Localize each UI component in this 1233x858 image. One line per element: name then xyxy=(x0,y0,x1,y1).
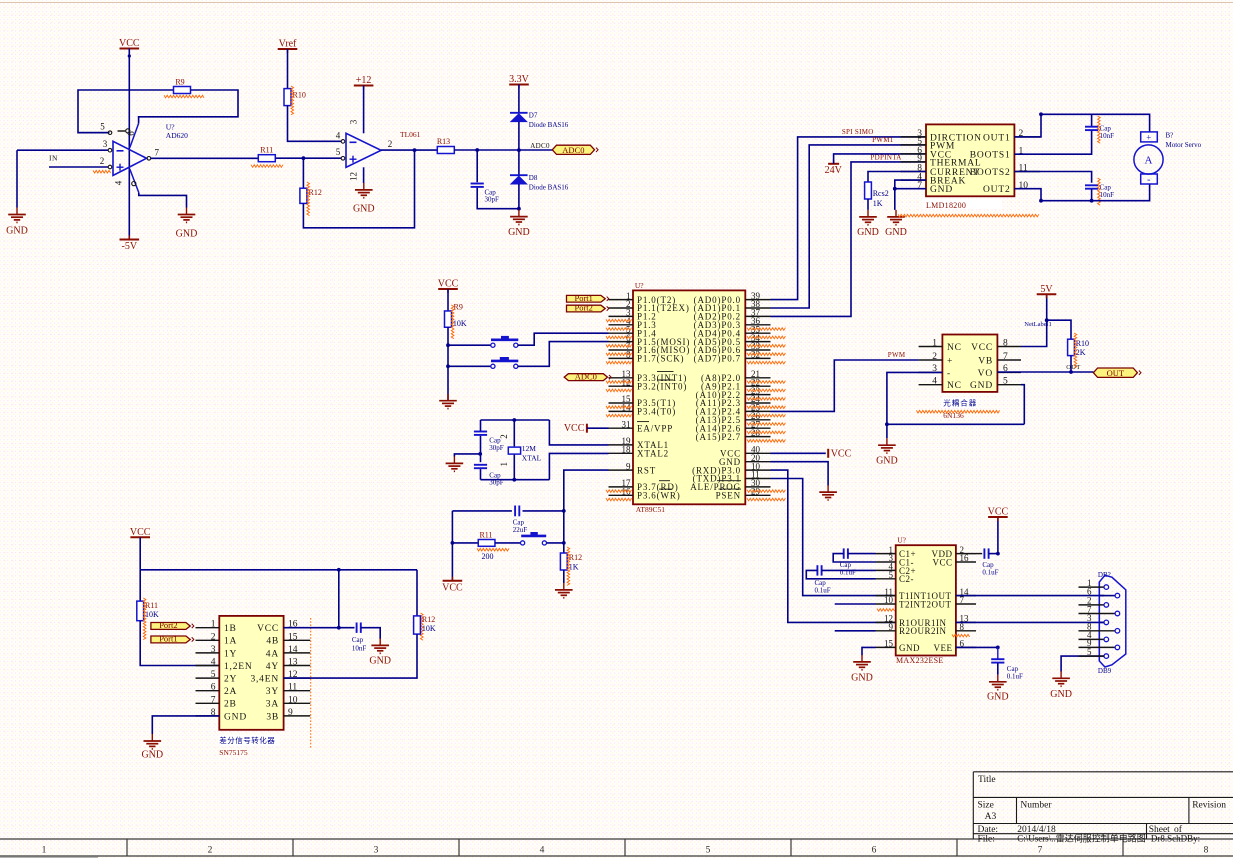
SN75175 pin 16 VCC xyxy=(284,627,311,629)
resistor R12 xyxy=(300,188,307,203)
power VCC (op-amp AD620 supply) xyxy=(120,48,140,50)
MCU overlines (active-low pins) xyxy=(657,371,674,373)
svg-text:10: 10 xyxy=(288,695,298,705)
svg-text:Title: Title xyxy=(978,775,996,785)
svg-text:3A: 3A xyxy=(266,700,279,710)
svg-text:LMD18200: LMD18200 xyxy=(926,201,966,210)
capacitor Cap 30pF (XTAL2 side) xyxy=(474,431,487,433)
wire clamp node xyxy=(477,149,552,151)
svg-text:2: 2 xyxy=(932,352,937,362)
LMD18200 pin 7 GND xyxy=(901,188,926,190)
svg-text:GND: GND xyxy=(970,381,993,391)
capacitor Cap 22uF xyxy=(452,510,512,512)
svg-text:8: 8 xyxy=(1204,845,1209,855)
svg-text:VCC: VCC xyxy=(932,557,952,567)
wire VCC to -5V vertical xyxy=(128,49,130,240)
wire GND pin15 xyxy=(862,647,876,655)
resistor R12 10K xyxy=(416,570,418,616)
port label Port1 (MCU) xyxy=(567,295,606,302)
port label Port2 (MCU) xyxy=(567,305,606,312)
svg-text:VCC: VCC xyxy=(130,527,151,538)
wire VCC to R11 xyxy=(139,570,141,601)
resistor R10 2K (pull-up) xyxy=(1047,320,1071,339)
ground (SN75175) xyxy=(151,734,153,741)
power 3.3V xyxy=(509,84,529,86)
MAX232 pin 15 GND xyxy=(876,646,896,648)
svg-text:R10: R10 xyxy=(1076,339,1089,348)
svg-text:NC: NC xyxy=(947,381,962,391)
svg-text:R10: R10 xyxy=(293,91,306,100)
svg-text:VCC: VCC xyxy=(257,624,279,634)
svg-text:Date:: Date: xyxy=(978,825,999,835)
svg-text:(AD7)P0.7: (AD7)P0.7 xyxy=(694,354,741,364)
MCU pin 13 P3.3(INT1) xyxy=(609,377,634,379)
svg-text:1K: 1K xyxy=(569,562,579,571)
DB9 pin 5 xyxy=(1104,654,1109,659)
svg-text:光耦合器: 光耦合器 xyxy=(943,398,977,408)
wire Vref to R10 xyxy=(287,49,289,89)
wire to Cap 30pF xyxy=(476,150,478,182)
svg-text:VB: VB xyxy=(978,356,993,366)
svg-text:1Y: 1Y xyxy=(224,649,237,659)
MAX232 pin 7 xyxy=(956,603,976,605)
port label Port2 (SN75175) xyxy=(151,623,190,630)
wire +12 to pin3 xyxy=(363,86,365,134)
svg-text:7: 7 xyxy=(211,695,216,705)
svg-text:R12: R12 xyxy=(569,553,582,562)
svg-text:GND: GND xyxy=(857,227,879,238)
svg-text:5: 5 xyxy=(211,670,216,680)
svg-text:4: 4 xyxy=(336,130,341,140)
wire rail to pin16 node xyxy=(338,570,340,628)
MCU pin 5 P1.4 xyxy=(609,332,634,334)
ground (crystal) xyxy=(453,456,455,463)
ground (reset) xyxy=(563,583,565,590)
svg-text:PWM1: PWM1 xyxy=(872,136,894,144)
wire pin4 to GND xyxy=(139,193,187,208)
LMD18200 pin 5 PWM xyxy=(901,144,926,146)
svg-text:7: 7 xyxy=(155,147,160,157)
svg-text:0.1uF: 0.1uF xyxy=(840,568,856,576)
LMD18200 pin 1 BOOTS1 xyxy=(1014,153,1040,155)
MCU pin 25 (A12)P2.4 xyxy=(745,410,770,412)
capacitor Cap 10nF (top) xyxy=(1091,114,1093,126)
svg-text:1: 1 xyxy=(211,620,216,630)
svg-text:24V: 24V xyxy=(825,165,843,176)
svg-text:Vref: Vref xyxy=(279,39,297,50)
svg-text:Port2: Port2 xyxy=(574,303,592,313)
wire to R12 xyxy=(302,158,304,188)
capacitor Cap 0.1uF (C2) xyxy=(816,565,818,575)
svg-text:16: 16 xyxy=(960,553,970,563)
port label Port1 (SN75175) xyxy=(151,636,190,643)
MCU pin 11 (TXD)P3.1 xyxy=(745,478,770,480)
svg-text:R13: R13 xyxy=(437,137,450,146)
ground (buttons) xyxy=(447,394,449,401)
DB9 pin 4 xyxy=(1079,638,1104,640)
svg-text:P3.6(WR): P3.6(WR) xyxy=(637,491,681,501)
resistor R9 xyxy=(174,87,191,94)
wire P0.0 to DIRCTION (SPI SIMO) xyxy=(771,137,927,300)
wire VO to OUT xyxy=(997,371,1093,373)
crystal Y1 12M XTAL xyxy=(513,420,515,446)
MCU pin 26 (A13)P2.5 xyxy=(745,419,770,421)
svg-text:6: 6 xyxy=(211,683,216,693)
svg-text:7: 7 xyxy=(960,595,965,605)
svg-text:Number: Number xyxy=(1020,801,1052,811)
power 5V xyxy=(1046,294,1048,320)
power 24V xyxy=(828,163,839,165)
svg-text:GND: GND xyxy=(353,204,375,215)
wire R11 to 1,2EN xyxy=(140,621,219,666)
MAX232 pin 13 xyxy=(956,621,976,623)
wire caps to ground xyxy=(454,454,480,457)
wire R11 to pin5 xyxy=(276,157,341,159)
resistor R12 1K xyxy=(560,553,567,570)
title block xyxy=(973,772,1233,839)
wire BOOTS2 to cap xyxy=(1014,172,1091,183)
6N136 pin 8 VCC xyxy=(997,346,1021,348)
wire button S2 to P1.5 xyxy=(518,342,609,367)
LMD18200 pin 6 VCC xyxy=(901,153,926,155)
wire R10 to op-amp pin4 xyxy=(288,106,342,142)
wire R9 to ground w/ taps xyxy=(447,327,449,400)
wire button S1 to P1.4 xyxy=(518,333,609,345)
wire VCC to EA pin xyxy=(587,427,609,429)
wire VCC branch xyxy=(451,511,453,581)
wire DB9 pin5 to ground xyxy=(1061,656,1104,671)
SN75175 pin 7 2B xyxy=(196,702,220,704)
LMD18200 pin 4 BREAK xyxy=(901,179,926,181)
MCU pin 32 (AD7)P0.7 xyxy=(745,357,770,359)
svg-text:AD620: AD620 xyxy=(166,131,188,140)
MAX232 pin 4 C2+ xyxy=(876,569,896,571)
svg-text:3: 3 xyxy=(349,119,359,124)
svg-text:VCC: VCC xyxy=(119,38,140,49)
LMD18200 pin 2 OUT1 xyxy=(1014,136,1040,138)
svg-text:3.3V: 3.3V xyxy=(509,74,530,85)
MCU pin 22 (A9)P2.1 xyxy=(745,385,770,387)
svg-text:OUT: OUT xyxy=(1066,364,1080,371)
svg-text:5V: 5V xyxy=(1040,284,1053,295)
svg-text:2Y: 2Y xyxy=(224,675,237,685)
SN75175 pin 15 4B xyxy=(284,639,311,641)
wire 24V to VCC pin xyxy=(834,154,926,164)
SN75175 pin 11 3Y xyxy=(284,690,311,692)
svg-text:10nF: 10nF xyxy=(1100,191,1115,199)
MCU pin 7 P1.6(MISO) xyxy=(609,349,634,351)
resistor Rcs2 1K xyxy=(868,172,926,183)
capacitor Cap 0.1uF (C1) xyxy=(843,548,845,558)
svg-text:5: 5 xyxy=(706,845,711,855)
motor B? Motor Servo xyxy=(1141,132,1158,142)
svg-text:+: + xyxy=(1146,132,1151,142)
svg-text:DB?: DB? xyxy=(1098,571,1111,579)
wire cap to ground rail xyxy=(477,188,519,209)
LMD18200 pin 9 THERMAL xyxy=(901,161,926,163)
svg-text:GND: GND xyxy=(987,692,1009,703)
svg-text:VCC: VCC xyxy=(442,582,463,593)
svg-text:D8: D8 xyxy=(529,174,538,182)
MCU pin 10 (RXD)P3.0 xyxy=(745,469,770,471)
svg-text:VEE: VEE xyxy=(934,643,953,653)
MCU pin 33 (AD6)P0.6 xyxy=(745,349,770,351)
svg-text:0.1uF: 0.1uF xyxy=(815,586,831,594)
MAX232 pin 5 C2- xyxy=(876,578,896,580)
svg-text:5: 5 xyxy=(1003,377,1008,387)
wire OUT2 to motor xyxy=(1014,184,1149,201)
svg-text:30pF: 30pF xyxy=(489,444,504,452)
capacitor Cap 10nF (bottom) xyxy=(1085,184,1098,186)
LMD18200 pin 8 CURRENT xyxy=(901,171,926,173)
svg-text:9: 9 xyxy=(626,461,631,471)
svg-text:BOOTS1: BOOTS1 xyxy=(970,151,1011,161)
resistor R10 xyxy=(284,89,291,106)
orange dotted marker (SN75175) xyxy=(310,618,312,749)
diode D7 Diode BAS16 xyxy=(510,112,528,114)
svg-text:RST: RST xyxy=(637,465,656,475)
svg-text:15: 15 xyxy=(288,632,298,642)
svg-text:DB9: DB9 xyxy=(1098,667,1112,675)
DB9 pin 6 xyxy=(1099,595,1115,597)
wire T2IN dangling xyxy=(835,603,876,605)
optocoupler 6N136 body xyxy=(942,335,997,392)
svg-text:7: 7 xyxy=(1003,352,1008,362)
svg-text:9: 9 xyxy=(288,708,293,718)
wire VCC rail xyxy=(139,537,141,570)
svg-text:10nF: 10nF xyxy=(352,644,367,652)
svg-text:MAX232ESE: MAX232ESE xyxy=(896,656,944,665)
svg-text:1,2EN: 1,2EN xyxy=(224,662,253,672)
resistor R11 10K xyxy=(137,601,144,621)
MAX232 pin 3 C1- xyxy=(876,561,896,563)
svg-text:11: 11 xyxy=(288,683,297,693)
svg-text:GND: GND xyxy=(176,229,198,240)
wire P2.4 to opto + (PWM) xyxy=(771,360,919,411)
wire VCC pin16 to cap xyxy=(284,627,355,629)
svg-text:2B: 2B xyxy=(224,700,237,710)
wire R12 to 3,4EN xyxy=(284,634,417,678)
svg-text:10K: 10K xyxy=(453,319,467,328)
MCU pin 12 P3.2(INT0) xyxy=(609,385,634,387)
power VCC (reset) xyxy=(443,580,463,582)
svg-text:GND: GND xyxy=(1050,689,1072,700)
MCU pin 9 RST xyxy=(609,469,634,471)
svg-text:4: 4 xyxy=(932,377,937,387)
SN75175 pin 4 1,2EN xyxy=(196,665,220,667)
6N136 pin 5 GND xyxy=(997,384,1021,386)
wire feedback loop right xyxy=(139,90,238,123)
pin 2 wire xyxy=(49,166,108,168)
op-amp TL061 xyxy=(346,133,381,167)
svg-text:0.1uF: 0.1uF xyxy=(982,568,998,576)
svg-text:4: 4 xyxy=(211,658,216,668)
svg-text:2K: 2K xyxy=(1076,348,1086,357)
svg-text:200: 200 xyxy=(482,552,494,561)
DB9 pin 2 xyxy=(1079,604,1104,606)
svg-text:5: 5 xyxy=(336,147,341,157)
svg-text:C:\Users\..雷达伺服控制单电路图: C:\Users\..雷达伺服控制单电路图 xyxy=(1017,833,1146,844)
wire to XTAL2 xyxy=(549,453,608,479)
svg-text:3,4EN: 3,4EN xyxy=(250,675,279,685)
svg-text:1B: 1B xyxy=(224,624,237,634)
svg-text:B?: B? xyxy=(1166,131,1174,139)
svg-text:ADC0: ADC0 xyxy=(575,371,597,381)
svg-text:-: - xyxy=(1147,174,1150,185)
MCU pin 2 P1.1(T2EX) xyxy=(609,307,634,309)
svg-text:5: 5 xyxy=(889,570,894,580)
MAX232 pin 1 C1+ xyxy=(876,553,896,555)
MCU pin 6 P1.5(MOSI) xyxy=(609,341,634,343)
svg-text:D7: D7 xyxy=(529,112,538,120)
MAX232 pin 8 xyxy=(956,630,976,632)
svg-text:P1.7(SCK): P1.7(SCK) xyxy=(637,354,684,364)
wire OUT1 to motor xyxy=(1014,114,1149,137)
svg-text:4A: 4A xyxy=(266,649,279,659)
svg-text:A3: A3 xyxy=(985,812,997,822)
svg-text:U?: U? xyxy=(897,536,906,545)
pin 3 wire from input xyxy=(17,149,108,151)
ground (clamp) xyxy=(518,210,520,217)
MAX232 pin 6 xyxy=(956,646,976,648)
wire R2IN dangling xyxy=(835,630,876,632)
svg-text:3: 3 xyxy=(374,845,379,855)
sheet top edge xyxy=(0,2,1233,4)
SN75175 pin 6 2A xyxy=(196,690,220,692)
svg-text:1: 1 xyxy=(499,462,509,467)
power VCC (SN75175) xyxy=(130,536,150,538)
svg-text:GND: GND xyxy=(930,185,953,195)
svg-text:Diode BAS16: Diode BAS16 xyxy=(529,183,569,191)
MAX232 pin 2 xyxy=(956,553,976,555)
svg-text:OUT1: OUT1 xyxy=(983,133,1010,143)
svg-text:SN75175: SN75175 xyxy=(219,748,248,757)
power VCC (button pull-up) xyxy=(438,288,458,290)
svg-text:P3.2(INT0): P3.2(INT0) xyxy=(637,381,687,391)
wire VCC to R9 xyxy=(447,289,449,311)
pin 4 bottom (diagonal + marker) xyxy=(130,169,139,193)
svg-text:Dr8.SchDBy:: Dr8.SchDBy: xyxy=(1151,834,1200,844)
svg-text:TL061: TL061 xyxy=(400,130,421,139)
wire crystal left top xyxy=(480,420,482,431)
svg-text:GND: GND xyxy=(851,673,873,684)
MCU pin 18 XTAL2 xyxy=(609,452,634,454)
svg-text:Cap: Cap xyxy=(352,636,364,644)
svg-text:18: 18 xyxy=(622,445,632,455)
MCU pin 14 P3.4(T0) xyxy=(609,410,634,412)
capacitor Cap 0.1uF (VCC) xyxy=(976,553,982,555)
svg-text:5: 5 xyxy=(100,122,105,132)
squiggle R12 column xyxy=(421,613,424,640)
svg-text:R12: R12 xyxy=(309,188,322,197)
driver U? LMD18200 body xyxy=(926,124,1014,196)
wire crystal bottom xyxy=(481,479,550,481)
power Vref xyxy=(278,48,298,50)
transceiver U? MAX232ESE body xyxy=(896,545,956,655)
SN75175 pin 3 1Y xyxy=(196,652,220,654)
svg-text:-: - xyxy=(947,369,951,379)
capacitor Cap 30pF (clamp) xyxy=(471,183,484,185)
6N136 pin 2 + xyxy=(919,359,943,361)
svg-text:P3.4(T0): P3.4(T0) xyxy=(637,407,676,417)
wire D7 to node xyxy=(518,122,520,150)
svg-text:2A: 2A xyxy=(224,687,237,697)
svg-text:R11: R11 xyxy=(260,146,273,155)
6N136 pin 7 VB xyxy=(997,359,1021,361)
pin 6 top (diagonal + marker) xyxy=(130,123,139,147)
svg-text:3Y: 3Y xyxy=(266,687,279,697)
MAX232 pin 10 T2INT2OUT xyxy=(876,603,896,605)
ground (MCU pin20) xyxy=(827,485,829,492)
SN75175 pin 14 4A xyxy=(284,652,311,654)
ground (VEE cap) xyxy=(997,675,999,682)
resistor R11 200 xyxy=(452,542,478,544)
MAX232 pin 9 R2OUR2IN xyxy=(876,630,896,632)
svg-text:30pF: 30pF xyxy=(485,196,500,204)
DB9 pin 9 xyxy=(1079,646,1115,648)
svg-text:1: 1 xyxy=(932,338,937,348)
MCU pin 39 (AD0)P0.0 xyxy=(745,299,770,301)
svg-text:8: 8 xyxy=(1003,338,1008,348)
svg-text:VCC: VCC xyxy=(971,343,993,353)
squiggle markers MCU right pins xyxy=(747,328,785,331)
svg-text:2: 2 xyxy=(388,139,393,149)
svg-text:1: 1 xyxy=(42,845,47,855)
wire R13 to clamp node xyxy=(454,149,477,151)
squiggle long (LMD) xyxy=(898,214,1039,217)
svg-text:PWM: PWM xyxy=(888,351,906,359)
MAX232 pin 11 T1INT1OUT xyxy=(876,595,896,597)
MCU pin 4 P1.3 xyxy=(609,324,634,326)
svg-text:R11: R11 xyxy=(479,531,492,540)
wire opto GND pin5 xyxy=(1021,385,1024,425)
MCU pin 17 P3.7(RD) xyxy=(609,486,634,488)
svg-text:GND: GND xyxy=(224,712,247,722)
svg-text:10K: 10K xyxy=(422,624,436,633)
svg-text:4: 4 xyxy=(540,845,545,855)
ground (MAX232 pin15) xyxy=(861,655,863,662)
wire MCU GND pin20 xyxy=(771,462,829,486)
svg-text:A: A xyxy=(1145,155,1153,167)
wire opto - to ground node xyxy=(887,372,943,424)
svg-text:Size: Size xyxy=(978,801,994,811)
svg-text:File:: File: xyxy=(978,835,995,845)
resistor R9 10K xyxy=(445,311,452,327)
push button S1 xyxy=(448,344,491,346)
wire cap2 to bottom xyxy=(480,469,482,480)
ground (opto) xyxy=(886,424,888,438)
MCU pin 37 (AD2)P0.2 xyxy=(745,315,770,317)
ground (input) xyxy=(16,208,18,215)
svg-text:Diode BAS16: Diode BAS16 xyxy=(529,121,569,129)
net label OUT xyxy=(1093,368,1137,377)
resistor R13 xyxy=(437,147,454,154)
pin 2 output wire xyxy=(381,149,437,151)
LMD18200 pin 10 OUT2 xyxy=(1014,188,1040,190)
svg-text:12M: 12M xyxy=(522,444,537,453)
wire R1IN to DB9 pin3 xyxy=(956,621,1105,623)
diode D8 Diode BAS16 xyxy=(518,150,520,175)
zone ruler xyxy=(0,839,1233,856)
squiggle (6N136) xyxy=(916,410,999,413)
svg-text:2: 2 xyxy=(208,845,213,855)
svg-text:VCC: VCC xyxy=(831,448,852,459)
svg-text:7: 7 xyxy=(1038,845,1043,855)
svg-text:2: 2 xyxy=(499,434,509,439)
svg-text:XTAL: XTAL xyxy=(522,454,542,463)
svg-text:4: 4 xyxy=(114,180,124,185)
MCU pin 3 P1.2 xyxy=(609,315,634,317)
